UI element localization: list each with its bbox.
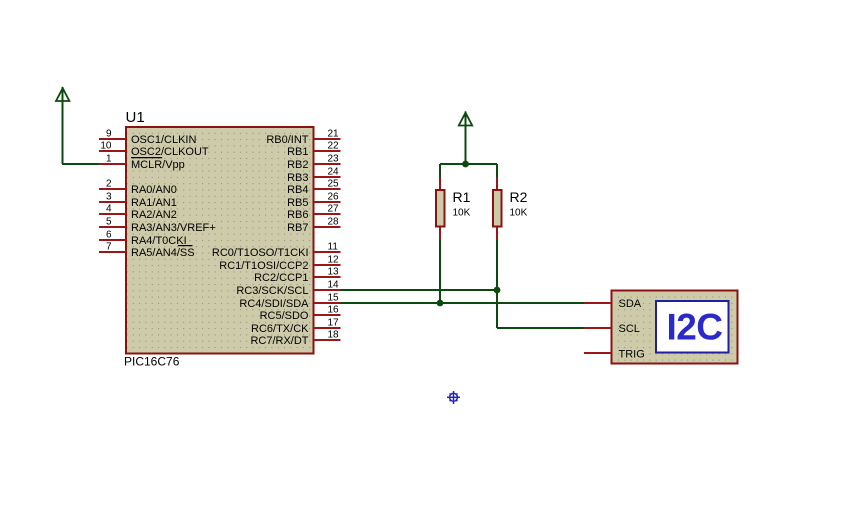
origin marker xyxy=(447,391,460,404)
svg-text:RA5/AN4/SS: RA5/AN4/SS xyxy=(131,247,195,259)
svg-text:RA3/AN3/VREF+: RA3/AN3/VREF+ xyxy=(131,222,216,234)
svg-text:10: 10 xyxy=(100,140,112,151)
svg-text:13: 13 xyxy=(328,266,340,277)
part number PIC16C76 xyxy=(124,355,180,369)
svg-text:RB3: RB3 xyxy=(287,172,308,184)
pin 5 (RA3/AN3/VREF+) xyxy=(99,216,216,233)
svg-text:RC7/RX/DT: RC7/RX/DT xyxy=(250,335,308,347)
junction VCC/R1/R2 xyxy=(462,161,469,168)
pin 24 (RB3) xyxy=(287,166,340,183)
svg-text:SCL: SCL xyxy=(619,323,640,335)
wire RC4/SDI/SDA (pin 15) to I2C SDA xyxy=(341,302,585,304)
svg-text:21: 21 xyxy=(328,128,340,139)
pin 25 (RB4) xyxy=(287,178,340,195)
svg-text:10K: 10K xyxy=(453,208,471,219)
svg-text:5: 5 xyxy=(106,216,112,227)
svg-text:RA0/AN0: RA0/AN0 xyxy=(131,184,177,196)
value R1 10K xyxy=(453,208,471,219)
svg-text:1: 1 xyxy=(106,153,112,164)
designator U1 xyxy=(126,109,145,126)
svg-text:RB0/INT: RB0/INT xyxy=(266,134,308,146)
pin 26 (RB5) xyxy=(287,191,340,208)
pin 27 (RB6) xyxy=(287,203,340,220)
pin 2 (RA0/AN0) xyxy=(99,178,177,195)
resistor R1 xyxy=(436,164,445,303)
svg-text:7: 7 xyxy=(106,241,112,252)
svg-text:RB5: RB5 xyxy=(287,197,308,209)
svg-text:SDA: SDA xyxy=(619,298,642,310)
svg-text:15: 15 xyxy=(328,292,340,303)
power symbol VCC (above R1/R2) xyxy=(459,112,472,165)
junction SDA net at R1 xyxy=(437,300,444,307)
svg-text:10K: 10K xyxy=(510,208,528,219)
I2C display box xyxy=(656,301,729,353)
label I2C xyxy=(666,307,722,348)
svg-text:6: 6 xyxy=(106,229,112,240)
svg-text:RA1/AN1: RA1/AN1 xyxy=(131,197,177,209)
pin 13 (RC2/CCP1) xyxy=(254,266,340,283)
svg-text:14: 14 xyxy=(328,279,340,290)
pin 21 (RB0/INT) xyxy=(266,128,340,145)
wire RC3/SCK/SCL (pin 14) to R2 leg xyxy=(341,289,498,291)
pin 18 (RC7/RX/DT) xyxy=(250,329,340,346)
microcontroller U1 body xyxy=(126,127,314,354)
svg-text:26: 26 xyxy=(328,191,340,202)
svg-text:RC3/SCK/SCL: RC3/SCK/SCL xyxy=(236,285,308,297)
wire SCL net to I2C SCL (horizontal) xyxy=(497,327,584,329)
pin 6 (RA4/T0CKI) xyxy=(99,229,187,246)
svg-text:RC2/CCP1: RC2/CCP1 xyxy=(254,272,308,284)
pin TRIG of I2C module xyxy=(584,348,645,360)
svg-text:MCLR/Vpp: MCLR/Vpp xyxy=(131,159,185,171)
pin 10 (OSC2/CLKOUT) xyxy=(99,140,209,157)
svg-text:25: 25 xyxy=(328,178,340,189)
svg-text:18: 18 xyxy=(328,329,340,340)
svg-text:23: 23 xyxy=(328,153,340,164)
resistor R2 xyxy=(493,164,502,328)
pin 17 (RC6/TX/CK) xyxy=(251,317,340,334)
svg-text:11: 11 xyxy=(328,241,339,252)
svg-text:RC0/T1OSO/T1CKI: RC0/T1OSO/T1CKI xyxy=(212,247,309,259)
svg-text:RC4/SDI/SDA: RC4/SDI/SDA xyxy=(239,298,309,310)
svg-text:2: 2 xyxy=(106,178,112,189)
pin 15 (RC4/SDI/SDA) xyxy=(239,292,340,309)
svg-text:3: 3 xyxy=(106,191,112,202)
svg-text:U1: U1 xyxy=(126,109,145,126)
pin 22 (RB1) xyxy=(287,140,340,157)
svg-text:OSC2/CLKOUT: OSC2/CLKOUT xyxy=(131,146,209,158)
pin 1 (MCLR/Vpp) xyxy=(99,153,185,170)
pin SCL of I2C module xyxy=(584,323,640,335)
pin 23 (RB2) xyxy=(287,153,340,170)
pin 4 (RA2/AN2) xyxy=(99,203,177,220)
power symbol VCC (left) xyxy=(56,87,69,164)
svg-text:RB6: RB6 xyxy=(287,209,308,221)
svg-text:17: 17 xyxy=(328,317,340,328)
pin 16 (RC5/SDO) xyxy=(260,304,341,321)
svg-text:R1: R1 xyxy=(453,189,471,205)
svg-text:RC6/TX/CK: RC6/TX/CK xyxy=(251,323,309,335)
svg-text:R2: R2 xyxy=(510,189,528,205)
svg-text:I2C: I2C xyxy=(666,307,722,348)
designator R1 xyxy=(453,189,471,205)
svg-text:12: 12 xyxy=(328,254,340,265)
svg-text:TRIG: TRIG xyxy=(619,348,645,360)
svg-text:28: 28 xyxy=(328,216,340,227)
junction SCL net at R2 xyxy=(494,287,501,294)
svg-text:PIC16C76: PIC16C76 xyxy=(124,355,180,369)
designator R2 xyxy=(510,189,528,205)
svg-text:RC5/SDO: RC5/SDO xyxy=(260,310,309,322)
value R2 10K xyxy=(510,208,528,219)
svg-text:9: 9 xyxy=(106,128,112,139)
svg-text:4: 4 xyxy=(106,203,112,214)
I2C module body xyxy=(612,291,738,364)
pin 9 (OSC1/CLKIN) xyxy=(99,128,196,145)
pin SDA of I2C module xyxy=(584,298,642,310)
svg-text:RB4: RB4 xyxy=(287,184,308,196)
pin 12 (RC1/T1OSI/CCP2) xyxy=(219,254,340,271)
pin 7 (RA5/AN4/SS) xyxy=(99,241,195,258)
svg-text:RA2/AN2: RA2/AN2 xyxy=(131,209,177,221)
svg-text:22: 22 xyxy=(328,140,340,151)
svg-text:24: 24 xyxy=(328,166,340,177)
svg-text:RB2: RB2 xyxy=(287,159,308,171)
pin 11 (RC0/T1OSO/T1CKI) xyxy=(212,241,341,258)
svg-text:RB7: RB7 xyxy=(287,222,308,234)
svg-text:27: 27 xyxy=(328,203,340,214)
svg-text:16: 16 xyxy=(328,304,340,315)
pin 3 (RA1/AN1) xyxy=(99,191,177,208)
wire VCC rail (R1 top to R2 top) xyxy=(440,163,497,165)
pin 14 (RC3/SCK/SCL) xyxy=(236,279,340,296)
svg-text:OSC1/CLKIN: OSC1/CLKIN xyxy=(131,134,196,146)
svg-text:RC1/T1OSI/CCP2: RC1/T1OSI/CCP2 xyxy=(219,260,308,272)
svg-text:RB1: RB1 xyxy=(287,146,308,158)
pin 28 (RB7) xyxy=(287,216,340,233)
wire VCC to MCLR (horizontal) xyxy=(62,163,100,165)
